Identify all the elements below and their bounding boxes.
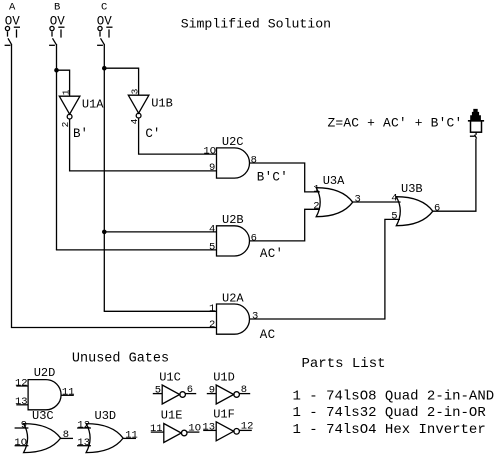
svg-text:1O: 1O: [203, 146, 216, 158]
svg-text:5: 5: [391, 211, 397, 223]
wire U2C output to U3A pin 1: [249, 163, 319, 192]
U3C pin 9 stub: [15, 427, 29, 429]
svg-text:1: 1: [313, 183, 319, 195]
switch SW-C: [97, 26, 112, 45]
wire C junction to U1B input: [104, 68, 138, 95]
inverter U1E (unused): [151, 424, 200, 443]
svg-text:12: 12: [241, 421, 254, 433]
svg-text:6: 6: [434, 202, 440, 214]
svg-text:11: 11: [62, 387, 75, 399]
svg-text:Unused Gates: Unused Gates: [72, 351, 169, 366]
and-gate U2A: [217, 304, 250, 334]
op-amp U1B inverter: [128, 95, 149, 118]
or-gate U3B: [396, 197, 433, 226]
wire U2A output to U3B pin 5: [249, 219, 400, 319]
svg-text:13: 13: [15, 396, 28, 408]
svg-text:8: 8: [241, 384, 247, 396]
wire B junction to U1A input: [57, 70, 70, 96]
U3C pin 10 stub: [15, 445, 29, 447]
svg-text:U1F: U1F: [213, 408, 235, 422]
svg-text:5: 5: [155, 385, 161, 397]
svg-text:4: 4: [209, 223, 215, 235]
svg-text:U1A: U1A: [82, 97, 104, 111]
wire net A vertical trunk: [11, 44, 13, 328]
U2D pin 13 stub: [16, 404, 28, 406]
svg-text:2: 2: [209, 319, 215, 331]
svg-text:U2A: U2A: [222, 291, 244, 305]
svg-text:11: 11: [125, 430, 138, 442]
wire net B vertical trunk: [56, 44, 58, 250]
svg-text:C: C: [101, 2, 107, 14]
svg-text:9: 9: [209, 162, 215, 174]
inverter U1F (unused): [203, 422, 252, 441]
svg-text:6: 6: [251, 232, 257, 244]
svg-text:3: 3: [252, 311, 258, 323]
svg-text:13: 13: [77, 437, 90, 449]
wire net C to U2A pin 1: [104, 310, 217, 312]
svg-text:U3C: U3C: [32, 409, 54, 423]
svg-text:AC: AC: [260, 328, 276, 342]
U3C pin 8 stub: [61, 437, 73, 439]
U2D pin 12 stub: [16, 385, 28, 387]
svg-text:1O: 1O: [188, 422, 201, 434]
svg-text:13: 13: [202, 421, 215, 433]
svg-text:Z=AC + AC' + B'C': Z=AC + AC' + B'C': [328, 116, 463, 131]
svg-text:1O: 1O: [14, 437, 27, 449]
svg-text:1 - 74ls32 Quad 2-in-OR: 1 - 74ls32 Quad 2-in-OR: [293, 405, 487, 421]
svg-text:C': C': [145, 127, 160, 141]
or-gate U3D (unused): [86, 424, 123, 453]
wire C junction to U2B pin 4: [104, 231, 216, 233]
junction node C branch to U2B: [102, 230, 107, 235]
svg-text:6: 6: [187, 384, 193, 396]
svg-text:AC': AC': [260, 247, 283, 261]
svg-text:3: 3: [355, 194, 361, 206]
wire U1A output B': [70, 119, 217, 170]
wire net B to U2B pin 5: [56, 249, 217, 251]
op-amp U1A inverter: [59, 96, 80, 119]
and-gate U2D (unused): [28, 380, 61, 410]
svg-text:U2C: U2C: [222, 135, 244, 149]
switch SW-A: [5, 26, 20, 45]
U3D pin 11 stub: [123, 437, 136, 439]
U3D pin 12 stub: [77, 427, 91, 429]
indicator lamp DS1: [468, 109, 484, 139]
junction node C branch to U1B: [102, 66, 107, 71]
inverter U1C (unused): [153, 385, 196, 404]
and-gate U2B: [217, 226, 250, 256]
junction node B branch: [54, 68, 59, 73]
svg-text:9: 9: [209, 385, 215, 397]
and-gate U2C: [217, 148, 250, 178]
svg-text:5: 5: [209, 241, 215, 253]
svg-text:1 - 74lsO8 Quad 2-in-AND: 1 - 74lsO8 Quad 2-in-AND: [293, 389, 495, 405]
svg-text:8: 8: [251, 155, 257, 167]
wire U1B output C': [139, 118, 217, 154]
svg-text:U3A: U3A: [323, 174, 345, 188]
svg-text:U1E: U1E: [161, 408, 183, 422]
svg-text:Simplified Solution: Simplified Solution: [181, 16, 331, 31]
svg-text:1 - 74lsO4 Hex Inverter: 1 - 74lsO4 Hex Inverter: [293, 422, 486, 438]
svg-text:U1D: U1D: [213, 370, 235, 384]
svg-text:B'C': B'C': [257, 170, 288, 184]
U2D pin 11 stub: [61, 394, 74, 396]
svg-text:U3D: U3D: [95, 409, 117, 423]
wire U3B output to indicator: [433, 139, 476, 212]
svg-text:U1C: U1C: [159, 370, 181, 384]
or-gate U3C (unused): [24, 424, 61, 453]
svg-text:B': B': [73, 127, 88, 141]
svg-text:U3B: U3B: [401, 182, 423, 196]
svg-text:A: A: [9, 2, 16, 14]
svg-text:Parts List: Parts List: [302, 356, 386, 372]
svg-text:3: 3: [129, 88, 140, 94]
inverter U1D (unused): [207, 385, 250, 404]
svg-text:1: 1: [60, 89, 71, 95]
svg-text:U2D: U2D: [34, 366, 56, 380]
svg-text:U2B: U2B: [222, 213, 244, 227]
svg-text:4: 4: [391, 192, 397, 204]
or-gate U3A: [316, 188, 353, 217]
U3D pin 13 stub: [77, 445, 91, 447]
svg-text:12: 12: [77, 419, 90, 431]
svg-text:U1B: U1B: [151, 96, 173, 110]
svg-text:2: 2: [313, 201, 319, 213]
svg-text:11: 11: [150, 423, 163, 435]
svg-text:1: 1: [209, 303, 215, 315]
wire U2B output to U3A pin 2: [249, 209, 319, 241]
wire U3A output to U3B pin 4: [353, 201, 400, 204]
wire net C vertical trunk: [103, 44, 105, 311]
switch SW-B: [49, 26, 64, 45]
wire net A to U2A pin 2: [11, 327, 217, 329]
svg-text:12: 12: [15, 377, 28, 389]
svg-text:B: B: [54, 2, 60, 14]
svg-text:9: 9: [21, 419, 27, 431]
svg-text:8: 8: [63, 429, 69, 441]
